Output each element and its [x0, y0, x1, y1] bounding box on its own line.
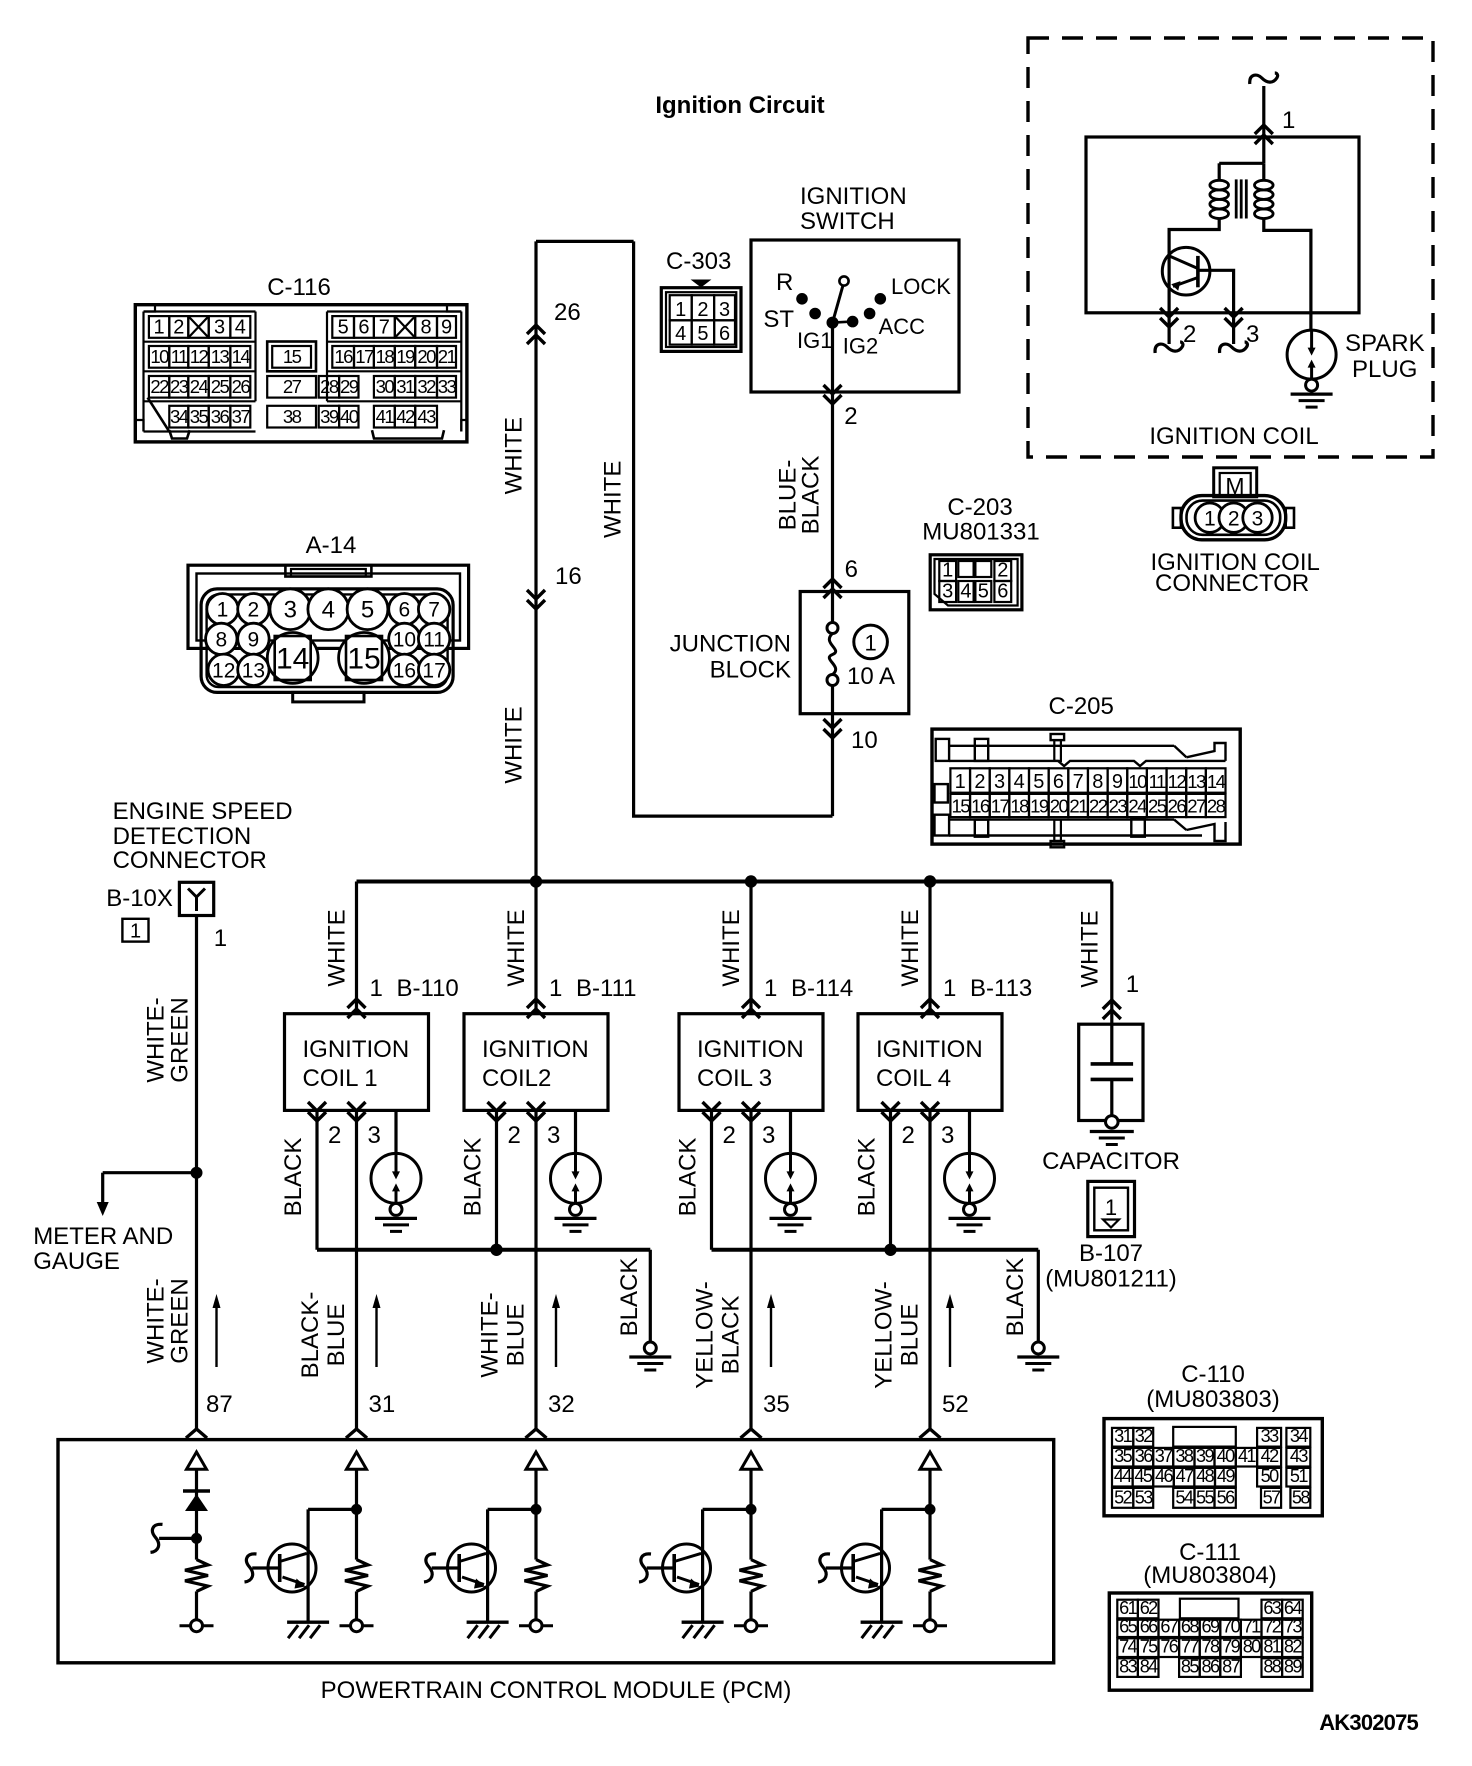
svg-text:39: 39 — [1196, 1446, 1214, 1466]
svg-text:7: 7 — [1073, 771, 1084, 793]
svg-text:28: 28 — [320, 376, 339, 397]
svg-text:34: 34 — [1290, 1426, 1308, 1446]
svg-text:18: 18 — [1010, 796, 1029, 817]
svg-text:72: 72 — [1263, 1617, 1281, 1637]
svg-text:41: 41 — [376, 406, 395, 427]
svg-text:R: R — [776, 269, 793, 296]
svg-text:30: 30 — [376, 376, 395, 397]
svg-text:1: 1 — [217, 599, 229, 622]
svg-text:1: 1 — [943, 975, 956, 1002]
svg-text:40: 40 — [1217, 1446, 1235, 1466]
svg-text:16: 16 — [334, 346, 353, 367]
svg-text:B-110: B-110 — [397, 975, 459, 1002]
svg-text:PLUG: PLUG — [1352, 356, 1417, 383]
svg-text:17: 17 — [355, 346, 374, 367]
svg-text:87: 87 — [206, 1391, 233, 1418]
svg-text:70: 70 — [1222, 1617, 1240, 1637]
svg-text:METER AND: METER AND — [33, 1223, 173, 1250]
svg-text:ENGINE SPEED: ENGINE SPEED — [113, 798, 293, 825]
svg-text:BLACK-: BLACK- — [297, 1292, 324, 1379]
svg-text:71: 71 — [1243, 1617, 1261, 1637]
svg-text:78: 78 — [1202, 1637, 1220, 1657]
svg-text:42: 42 — [396, 406, 415, 427]
svg-text:65: 65 — [1119, 1617, 1137, 1637]
svg-text:3: 3 — [941, 1122, 954, 1149]
svg-text:AK302075: AK302075 — [1319, 1710, 1418, 1735]
svg-text:1: 1 — [1105, 1195, 1117, 1220]
svg-text:51: 51 — [1290, 1466, 1308, 1486]
svg-text:WHITE: WHITE — [1076, 910, 1103, 987]
svg-text:IGNITION: IGNITION — [800, 183, 907, 210]
svg-text:3: 3 — [284, 597, 297, 624]
svg-text:B-10X: B-10X — [106, 885, 173, 912]
svg-text:B-111: B-111 — [576, 975, 636, 1002]
svg-text:18: 18 — [376, 346, 395, 367]
svg-text:BLACK: BLACK — [1002, 1258, 1029, 1337]
svg-text:(MU803804): (MU803804) — [1143, 1562, 1276, 1589]
svg-text:2: 2 — [1228, 508, 1240, 531]
svg-text:2: 2 — [844, 403, 857, 430]
svg-text:73: 73 — [1284, 1617, 1302, 1637]
svg-text:22: 22 — [1089, 796, 1108, 817]
svg-text:C-116: C-116 — [267, 274, 331, 301]
svg-text:13: 13 — [242, 659, 265, 682]
svg-text:3: 3 — [368, 1122, 381, 1149]
svg-text:10 A: 10 A — [847, 663, 895, 690]
svg-text:COIL 4: COIL 4 — [876, 1065, 951, 1092]
svg-text:52: 52 — [1114, 1487, 1132, 1507]
svg-text:BLACK: BLACK — [280, 1138, 307, 1217]
svg-text:JUNCTION: JUNCTION — [670, 631, 791, 658]
svg-text:28: 28 — [1207, 796, 1226, 817]
svg-text:31: 31 — [369, 1391, 396, 1418]
svg-text:15: 15 — [283, 346, 302, 367]
svg-text:16: 16 — [555, 563, 582, 590]
svg-text:13: 13 — [1187, 771, 1206, 792]
svg-text:4: 4 — [1014, 771, 1025, 793]
svg-text:IGNITION: IGNITION — [876, 1036, 983, 1063]
svg-text:38: 38 — [1175, 1446, 1193, 1466]
svg-text:77: 77 — [1181, 1637, 1199, 1657]
svg-text:WHITE: WHITE — [718, 909, 745, 986]
svg-text:MU801331: MU801331 — [922, 519, 1039, 546]
svg-text:62: 62 — [1140, 1598, 1158, 1618]
svg-text:CONNECTOR: CONNECTOR — [1155, 570, 1309, 597]
svg-text:69: 69 — [1202, 1617, 1220, 1637]
svg-text:BLACK: BLACK — [798, 456, 825, 535]
svg-text:2: 2 — [173, 316, 184, 338]
svg-text:2: 2 — [997, 560, 1008, 582]
svg-text:15: 15 — [347, 643, 380, 676]
svg-text:54: 54 — [1175, 1487, 1193, 1507]
svg-text:(MU803803): (MU803803) — [1146, 1386, 1279, 1413]
svg-text:BLACK: BLACK — [854, 1138, 881, 1217]
svg-text:55: 55 — [1196, 1487, 1214, 1507]
svg-text:12: 12 — [190, 346, 209, 367]
svg-text:GREEN: GREEN — [167, 997, 194, 1082]
svg-text:20: 20 — [417, 346, 436, 367]
svg-text:4: 4 — [675, 323, 686, 345]
svg-text:21: 21 — [438, 346, 457, 367]
svg-text:38: 38 — [283, 406, 302, 427]
svg-text:40: 40 — [340, 406, 359, 427]
svg-text:74: 74 — [1119, 1637, 1137, 1657]
svg-text:LOCK: LOCK — [891, 274, 951, 299]
svg-text:3: 3 — [1246, 321, 1259, 348]
svg-text:5: 5 — [697, 323, 708, 345]
svg-text:27: 27 — [1187, 796, 1206, 817]
svg-text:B-113: B-113 — [970, 975, 1032, 1002]
svg-text:3: 3 — [942, 581, 953, 603]
svg-text:29: 29 — [340, 376, 359, 397]
svg-text:B-114: B-114 — [791, 975, 853, 1002]
svg-text:39: 39 — [320, 406, 339, 427]
svg-text:6: 6 — [845, 556, 858, 583]
svg-text:BLUE: BLUE — [897, 1304, 924, 1367]
svg-text:6: 6 — [399, 599, 411, 622]
svg-text:23: 23 — [170, 376, 189, 397]
svg-text:C-303: C-303 — [666, 248, 731, 275]
svg-text:IGNITION COIL: IGNITION COIL — [1149, 423, 1318, 450]
svg-text:49: 49 — [1217, 1466, 1235, 1486]
svg-text:14: 14 — [232, 346, 251, 367]
svg-text:WHITE: WHITE — [324, 909, 351, 986]
svg-text:9: 9 — [248, 628, 260, 651]
svg-text:47: 47 — [1176, 1466, 1194, 1486]
svg-text:5: 5 — [978, 581, 989, 603]
svg-text:26: 26 — [232, 376, 251, 397]
svg-text:17: 17 — [991, 796, 1010, 817]
svg-text:COIL 1: COIL 1 — [303, 1065, 378, 1092]
svg-text:50: 50 — [1261, 1466, 1279, 1486]
svg-text:1: 1 — [214, 925, 227, 952]
svg-text:21: 21 — [1069, 796, 1088, 817]
svg-text:44: 44 — [1114, 1466, 1132, 1486]
svg-text:41: 41 — [1238, 1446, 1256, 1466]
svg-text:WHITE-: WHITE- — [477, 1292, 504, 1377]
svg-text:1: 1 — [130, 921, 141, 943]
svg-text:10: 10 — [393, 628, 416, 651]
svg-text:1: 1 — [154, 316, 165, 338]
svg-text:CONNECTOR: CONNECTOR — [113, 847, 267, 874]
svg-text:87: 87 — [1222, 1656, 1240, 1676]
svg-text:3: 3 — [762, 1122, 775, 1149]
svg-text:3: 3 — [994, 771, 1005, 793]
svg-text:52: 52 — [942, 1391, 969, 1418]
svg-text:83: 83 — [1119, 1656, 1137, 1676]
svg-text:75: 75 — [1140, 1637, 1158, 1657]
svg-text:2: 2 — [697, 299, 708, 321]
svg-text:11: 11 — [423, 628, 445, 651]
svg-text:COIL 3: COIL 3 — [697, 1065, 772, 1092]
svg-text:86: 86 — [1202, 1656, 1220, 1676]
svg-text:2: 2 — [508, 1122, 521, 1149]
svg-text:YELLOW-: YELLOW- — [871, 1281, 898, 1389]
svg-text:WHITE-: WHITE- — [143, 997, 170, 1082]
svg-text:11: 11 — [171, 346, 188, 367]
svg-text:1: 1 — [764, 975, 777, 1002]
svg-text:Ignition Circuit: Ignition Circuit — [655, 92, 824, 119]
svg-text:GAUGE: GAUGE — [33, 1248, 120, 1275]
svg-text:25: 25 — [1148, 796, 1167, 817]
svg-text:33: 33 — [1261, 1426, 1279, 1446]
svg-text:WHITE: WHITE — [503, 909, 530, 986]
svg-text:BLOCK: BLOCK — [710, 657, 791, 684]
svg-text:61: 61 — [1119, 1598, 1137, 1618]
svg-text:66: 66 — [1140, 1617, 1158, 1637]
svg-text:43: 43 — [1290, 1446, 1308, 1466]
svg-text:4: 4 — [960, 581, 971, 603]
svg-text:64: 64 — [1284, 1598, 1302, 1618]
svg-text:56: 56 — [1217, 1487, 1235, 1507]
svg-text:37: 37 — [1155, 1446, 1173, 1466]
svg-text:BLUE: BLUE — [323, 1304, 350, 1367]
svg-text:ST: ST — [763, 306, 794, 333]
svg-text:BLACK: BLACK — [616, 1258, 643, 1337]
svg-text:14: 14 — [276, 643, 309, 676]
svg-text:6: 6 — [358, 316, 369, 338]
svg-text:POWERTRAIN CONTROL MODULE (PCM: POWERTRAIN CONTROL MODULE (PCM) — [321, 1677, 792, 1704]
svg-text:9: 9 — [1112, 771, 1123, 793]
svg-text:88: 88 — [1263, 1656, 1281, 1676]
svg-text:57: 57 — [1263, 1487, 1281, 1507]
svg-text:17: 17 — [422, 659, 445, 682]
svg-text:32: 32 — [417, 376, 436, 397]
svg-text:WHITE: WHITE — [501, 706, 528, 783]
svg-text:C-110: C-110 — [1181, 1361, 1245, 1388]
svg-text:53: 53 — [1135, 1487, 1153, 1507]
svg-text:8: 8 — [421, 316, 432, 338]
svg-text:20: 20 — [1050, 796, 1069, 817]
svg-text:16: 16 — [393, 659, 416, 682]
svg-text:WHITE-: WHITE- — [143, 1278, 170, 1363]
svg-text:IG2: IG2 — [843, 334, 878, 359]
svg-text:5: 5 — [361, 597, 374, 624]
svg-text:WHITE: WHITE — [501, 417, 528, 494]
svg-text:ACC: ACC — [879, 314, 926, 339]
svg-text:84: 84 — [1140, 1656, 1158, 1676]
svg-text:1: 1 — [675, 299, 686, 321]
svg-text:36: 36 — [211, 406, 230, 427]
svg-text:5: 5 — [338, 316, 349, 338]
svg-text:45: 45 — [1134, 1466, 1152, 1486]
svg-text:7: 7 — [379, 316, 390, 338]
svg-text:8: 8 — [215, 628, 227, 651]
svg-text:1: 1 — [955, 771, 966, 793]
svg-text:43: 43 — [417, 406, 436, 427]
svg-text:IGNITION: IGNITION — [697, 1036, 804, 1063]
svg-text:B-107: B-107 — [1079, 1240, 1143, 1267]
svg-text:11: 11 — [1149, 771, 1166, 792]
svg-text:9: 9 — [441, 316, 452, 338]
svg-text:10: 10 — [1128, 771, 1147, 792]
svg-text:26: 26 — [1168, 796, 1187, 817]
svg-text:42: 42 — [1261, 1446, 1279, 1466]
svg-text:33: 33 — [438, 376, 457, 397]
svg-text:26: 26 — [554, 299, 581, 326]
svg-text:3: 3 — [719, 299, 730, 321]
svg-text:BLACK: BLACK — [460, 1138, 487, 1217]
svg-text:6: 6 — [719, 323, 730, 345]
svg-text:COIL2: COIL2 — [482, 1065, 551, 1092]
svg-text:31: 31 — [396, 376, 415, 397]
svg-text:4: 4 — [322, 597, 335, 624]
svg-text:3: 3 — [214, 316, 225, 338]
svg-text:2: 2 — [902, 1122, 915, 1149]
svg-text:32: 32 — [1135, 1426, 1153, 1446]
svg-text:34: 34 — [170, 406, 189, 427]
svg-text:SPARK: SPARK — [1345, 330, 1425, 357]
svg-text:3: 3 — [1252, 508, 1264, 531]
svg-text:76: 76 — [1160, 1637, 1178, 1657]
svg-text:IGNITION: IGNITION — [482, 1036, 589, 1063]
svg-text:35: 35 — [1114, 1446, 1132, 1466]
svg-text:89: 89 — [1284, 1656, 1302, 1676]
svg-text:GREEN: GREEN — [167, 1278, 194, 1363]
svg-text:35: 35 — [190, 406, 209, 427]
svg-text:48: 48 — [1196, 1466, 1214, 1486]
svg-text:CAPACITOR: CAPACITOR — [1042, 1148, 1180, 1175]
svg-text:3: 3 — [547, 1122, 560, 1149]
svg-text:5: 5 — [1033, 771, 1044, 793]
svg-text:A-14: A-14 — [306, 532, 357, 559]
svg-text:WHITE: WHITE — [599, 461, 626, 538]
svg-text:81: 81 — [1263, 1637, 1281, 1657]
svg-text:46: 46 — [1155, 1466, 1173, 1486]
svg-text:19: 19 — [396, 346, 415, 367]
svg-text:32: 32 — [548, 1391, 575, 1418]
svg-text:58: 58 — [1292, 1487, 1310, 1507]
svg-text:10: 10 — [851, 727, 878, 754]
svg-text:1: 1 — [942, 560, 953, 582]
svg-text:80: 80 — [1243, 1637, 1261, 1657]
svg-text:1: 1 — [864, 631, 876, 656]
svg-text:4: 4 — [235, 316, 246, 338]
svg-text:WHITE: WHITE — [897, 909, 924, 986]
svg-text:2: 2 — [723, 1122, 736, 1149]
svg-text:2: 2 — [974, 771, 985, 793]
svg-text:79: 79 — [1222, 1637, 1240, 1657]
svg-text:27: 27 — [283, 376, 302, 397]
svg-text:10: 10 — [150, 346, 169, 367]
svg-text:1: 1 — [370, 975, 383, 1002]
svg-text:SWITCH: SWITCH — [800, 208, 895, 235]
svg-text:1: 1 — [1204, 508, 1216, 531]
svg-text:6: 6 — [1053, 771, 1064, 793]
svg-text:BLUE: BLUE — [503, 1304, 530, 1367]
svg-text:16: 16 — [971, 796, 990, 817]
svg-text:(MU801211): (MU801211) — [1045, 1266, 1177, 1293]
svg-text:2: 2 — [248, 599, 260, 622]
svg-text:35: 35 — [763, 1391, 790, 1418]
svg-text:85: 85 — [1181, 1656, 1199, 1676]
svg-text:12: 12 — [1168, 771, 1187, 792]
svg-text:DETECTION: DETECTION — [113, 823, 252, 850]
svg-text:67: 67 — [1160, 1617, 1178, 1637]
svg-text:24: 24 — [1128, 796, 1147, 817]
svg-text:BLACK: BLACK — [718, 1296, 745, 1375]
svg-text:YELLOW-: YELLOW- — [692, 1281, 719, 1389]
svg-text:1: 1 — [549, 975, 562, 1002]
svg-text:25: 25 — [211, 376, 230, 397]
svg-text:13: 13 — [211, 346, 230, 367]
svg-text:63: 63 — [1263, 1598, 1281, 1618]
svg-text:14: 14 — [1207, 771, 1226, 792]
svg-text:24: 24 — [190, 376, 209, 397]
svg-text:IG1: IG1 — [797, 328, 832, 353]
svg-text:19: 19 — [1030, 796, 1049, 817]
svg-text:C-203: C-203 — [947, 494, 1012, 521]
svg-text:23: 23 — [1109, 796, 1128, 817]
svg-text:IGNITION: IGNITION — [303, 1036, 410, 1063]
svg-text:2: 2 — [328, 1122, 341, 1149]
svg-text:7: 7 — [428, 599, 440, 622]
svg-text:1: 1 — [1282, 107, 1295, 134]
svg-text:36: 36 — [1135, 1446, 1153, 1466]
svg-text:22: 22 — [150, 376, 169, 397]
svg-text:BLACK: BLACK — [675, 1138, 702, 1217]
svg-text:C-205: C-205 — [1049, 693, 1114, 720]
svg-text:82: 82 — [1284, 1637, 1302, 1657]
svg-text:12: 12 — [212, 659, 235, 682]
svg-text:31: 31 — [1114, 1426, 1132, 1446]
svg-text:1: 1 — [1126, 971, 1139, 998]
svg-text:2: 2 — [1183, 321, 1196, 348]
svg-text:8: 8 — [1092, 771, 1103, 793]
svg-text:6: 6 — [997, 581, 1008, 603]
svg-text:68: 68 — [1181, 1617, 1199, 1637]
svg-text:37: 37 — [232, 406, 251, 427]
svg-text:15: 15 — [951, 796, 970, 817]
